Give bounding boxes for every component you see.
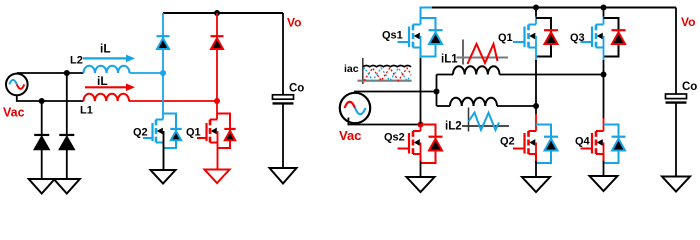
wire Q2 source	[163, 131, 165, 170]
svg-text:L1: L1	[80, 105, 93, 117]
node junction top AC terminal	[64, 70, 70, 76]
wire diode branch 1	[41, 101, 43, 179]
waveform iL2 cyan triangle	[469, 113, 500, 131]
node top bus junction leg3	[601, 5, 607, 11]
wire Q3 drain	[603, 8, 605, 25]
waveform iac red phase	[364, 68, 411, 81]
wire cyan leg vertical	[162, 13, 164, 120]
svg-text:Q1: Q1	[186, 127, 201, 139]
wire Q4 source to ground	[603, 154, 605, 176]
diode D3 (cyan fast)	[157, 36, 170, 49]
node top bus junction leg2	[533, 5, 539, 11]
svg-text:Q4: Q4	[575, 136, 591, 148]
wire top bus (right)	[421, 8, 677, 25]
wire Qs2 source to ground	[420, 154, 422, 177]
label Co (right)	[682, 81, 697, 93]
svg-text:Co: Co	[289, 83, 304, 95]
label Vo (right)	[681, 15, 695, 29]
label Co (left)	[289, 83, 304, 95]
mosfet Q1 (left, red)	[197, 114, 236, 149]
label Vac (right)	[339, 128, 361, 143]
node inductor split junction	[434, 89, 440, 95]
label iac	[344, 63, 359, 75]
node L1 to leg3 junction	[601, 72, 607, 78]
mosfet Q2 (right, red)	[513, 125, 558, 164]
mosfet Q3 (cyan)	[581, 18, 626, 57]
svg-text:Vo: Vo	[287, 16, 301, 30]
svg-text:Vo: Vo	[681, 15, 695, 29]
label L2	[70, 55, 83, 67]
wire red leg vertical	[216, 13, 218, 120]
wire Qs2 drain	[420, 125, 422, 132]
label Q2 (left)	[133, 127, 148, 139]
svg-text:iL: iL	[97, 74, 108, 88]
ground Q2 (left)	[151, 170, 176, 184]
AC source Vac (right)	[340, 93, 370, 123]
label Vo (left)	[287, 16, 301, 30]
waveform iL1 axis	[457, 40, 509, 65]
label Q1 (left)	[186, 127, 201, 139]
ground Co (left)	[270, 168, 297, 184]
ground Co (right)	[662, 177, 690, 192]
wire inductor split vertical	[436, 75, 438, 107]
wire inductor L2 row	[437, 105, 537, 107]
wire output branch (left)	[282, 13, 284, 95]
wire Qs1 source to AC node	[420, 48, 422, 125]
svg-text:iL1: iL1	[441, 54, 458, 66]
waveform iac cyan phase	[363, 68, 410, 81]
wire Q1 source	[217, 131, 219, 170]
ground Q1 (left, red)	[205, 170, 230, 184]
wire output branch (right)	[675, 8, 677, 95]
label iL (top)	[100, 42, 111, 56]
inductor L2 (right)	[450, 98, 497, 106]
AC source Vac (left)	[6, 74, 28, 96]
svg-text:iL2: iL2	[445, 121, 462, 133]
svg-text:Q2: Q2	[500, 136, 515, 148]
wire Vac top to L2	[17, 72, 84, 74]
label Vac (left)	[3, 106, 25, 120]
svg-text:Q2: Q2	[133, 127, 148, 139]
wire top bus (left)	[163, 12, 283, 14]
svg-text:L2: L2	[70, 55, 83, 67]
waveform iac axis	[358, 58, 412, 84]
wire L1 to red leg	[129, 100, 217, 102]
inductor L2	[84, 66, 130, 73]
wire L2 to cyan leg	[130, 72, 164, 74]
node L1-leg junction (red)	[214, 98, 220, 104]
svg-text:Qs2: Qs2	[384, 132, 405, 144]
waveform iac envelope	[363, 66, 411, 67]
node junction bottom AC terminal	[39, 98, 45, 104]
ground Q2 (right)	[522, 177, 550, 192]
label iL2	[445, 121, 462, 133]
diode D2	[59, 135, 74, 149]
arrow iL (red)	[85, 84, 135, 92]
wire Co to ground (left)	[282, 103, 284, 168]
mosfet Q2 (left, cyan)	[143, 114, 182, 149]
wire Q3 source to Q4 drain	[603, 48, 605, 132]
node slow leg AC junction (red)	[418, 122, 424, 128]
label Q1 (right)	[498, 32, 513, 44]
node top bus junction	[214, 10, 220, 16]
wire Vac top to inductor node	[355, 92, 437, 93]
wire Q1 drain	[535, 8, 537, 25]
node L2-leg junction (cyan)	[160, 70, 166, 76]
label L1	[80, 105, 93, 117]
diode D4 (red fast)	[211, 36, 224, 49]
waveform iL2 axis	[462, 108, 509, 132]
ground Q4	[590, 176, 618, 191]
label Q3	[570, 32, 585, 44]
ground D1	[29, 179, 55, 194]
wire Co to ground (right)	[675, 103, 677, 177]
ground D2	[54, 179, 80, 194]
svg-text:Vac: Vac	[339, 128, 361, 143]
mosfet Q4 (red)	[581, 125, 626, 164]
svg-text:iL: iL	[100, 42, 111, 56]
wire Vac bottom to slow leg	[348, 118, 420, 125]
wire diode branch 2	[66, 73, 68, 179]
label Q4	[575, 136, 591, 148]
label Qs2	[384, 132, 405, 144]
svg-text:Qs1: Qs1	[382, 30, 403, 42]
label Qs1	[382, 30, 403, 42]
svg-text:Q3: Q3	[570, 32, 585, 44]
svg-text:Q1: Q1	[498, 32, 513, 44]
wire inductor L1 row	[437, 74, 604, 76]
inductor L1 (right)	[453, 66, 500, 74]
ground Qs2	[407, 177, 435, 192]
mosfet Qs1 (cyan)	[398, 18, 443, 57]
capacitor Co (right)	[666, 94, 687, 103]
capacitor Co (left)	[273, 95, 294, 104]
label iL1	[441, 54, 458, 66]
wire Q2 source to ground	[535, 154, 537, 177]
waveform iL1 red triangle	[468, 44, 498, 64]
wire Q1 source to Q2 drain	[535, 48, 537, 132]
inductor L1	[84, 94, 130, 101]
svg-text:Vac: Vac	[3, 106, 25, 120]
svg-text:Co: Co	[682, 81, 697, 93]
mosfet Qs2 (red)	[398, 125, 443, 164]
arrow iL (cyan)	[83, 55, 135, 63]
wire Vac bottom	[17, 95, 84, 101]
node L2 to leg2 junction	[533, 103, 539, 109]
svg-text:iac: iac	[344, 63, 359, 75]
mosfet Q1 (right, cyan)	[513, 18, 558, 57]
diode D1	[34, 135, 49, 149]
label iL (bottom)	[97, 74, 108, 88]
label Q2 (right)	[500, 136, 515, 148]
